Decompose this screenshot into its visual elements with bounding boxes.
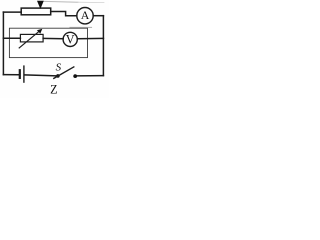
wire bottom-right horizontal [76,75,104,77]
wire right vertical [102,16,104,76]
wire top-left horizontal [3,11,21,13]
wire left vertical [2,12,4,75]
voltmeter V1 [63,32,77,46]
svg-text:S: S [56,61,62,73]
svg-text:Z: Z [50,82,57,96]
wire left stub to resistor [3,37,20,39]
svg-text:V: V [66,33,75,47]
wire resistor to voltmeter [43,37,63,39]
rheostat R1 (slider resistor) [21,1,51,15]
wire step from rheostat to ammeter [51,12,77,16]
wire voltmeter to right side [77,37,103,39]
wire from battery to switch [24,74,56,77]
ammeter A1 [77,8,93,24]
switch S [54,61,77,78]
svg-text:A: A [81,8,90,22]
battery B1 [20,66,24,82]
enclosure box Z [9,28,87,57]
wire top-right horizontal [93,15,103,17]
faint scan artifacts at very top (unlabeled, decorative) [44,0,78,3]
resistor R2 (variable, arrow) [19,29,43,48]
wire bottom-left horizontal [3,74,18,76]
